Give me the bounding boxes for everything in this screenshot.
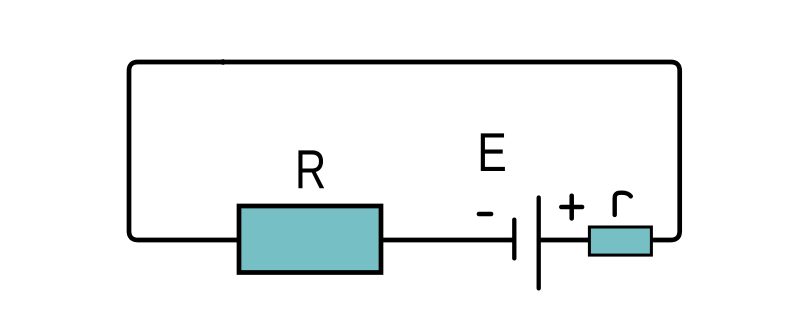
svg-text:E: E bbox=[477, 122, 507, 184]
minus sign (negative terminal) bbox=[479, 212, 491, 217]
resistor R bbox=[239, 206, 381, 273]
label r bbox=[615, 193, 631, 215]
battery negative plate (short) bbox=[512, 220, 516, 259]
wire : main loop (left-bottom, left, top, right, bottom-right stub) bbox=[129, 62, 680, 240]
wire : resistor R to battery negative plate bbox=[380, 238, 513, 243]
wire joint nub on top wire bbox=[220, 59, 226, 65]
wire : battery positive plate to resistor r bbox=[539, 238, 590, 243]
plus sign (positive terminal) bbox=[561, 205, 582, 210]
battery positive plate (long) bbox=[537, 198, 541, 289]
resistor r (internal resistance) bbox=[589, 227, 651, 255]
svg-text:R: R bbox=[295, 138, 326, 200]
